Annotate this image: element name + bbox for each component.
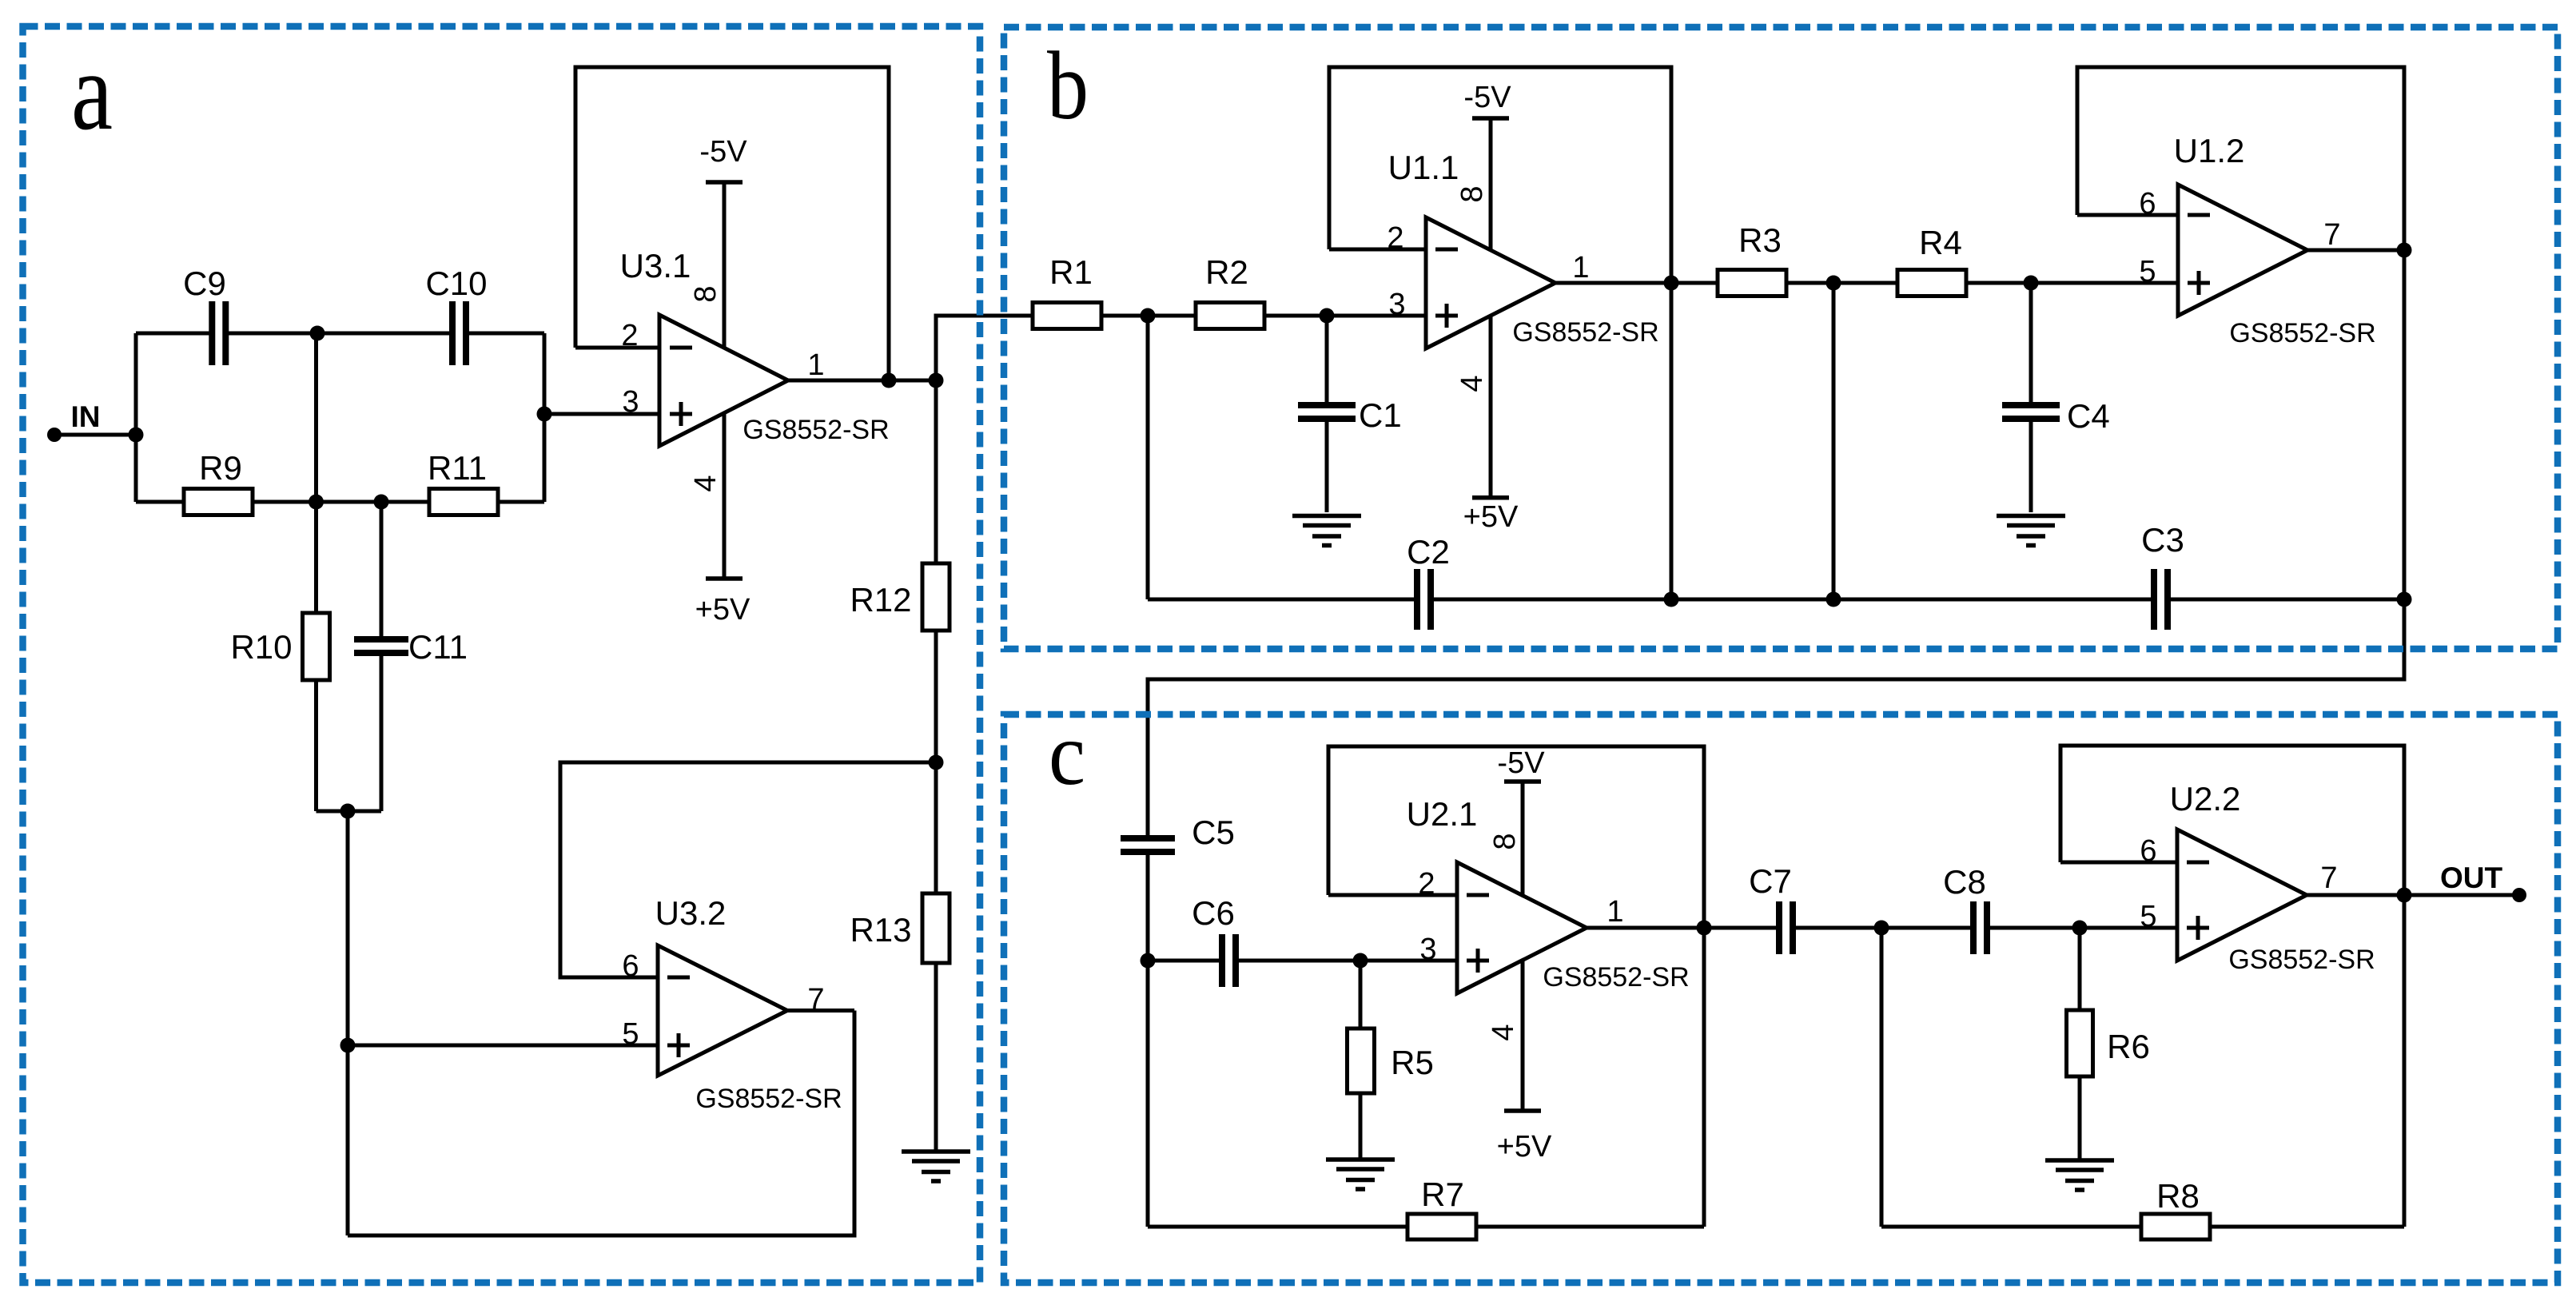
capacitor C6 plates: [1222, 934, 1236, 987]
node IN terminal: [47, 428, 62, 442]
node R4-C4 junction: [2024, 276, 2039, 291]
power -5V bar U1.1: [1472, 116, 1509, 121]
wire b bottom feedback seg3: [2168, 598, 2404, 602]
node IN junction: [129, 428, 144, 443]
wire C7C8 node down: [1880, 928, 1884, 1227]
op-amp U2.1 triangle: [1457, 862, 1587, 993]
svg-text:C11: C11: [408, 628, 468, 666]
wire C5 to C6 node: [1146, 852, 1150, 961]
node U1.1 output junction: [1664, 276, 1679, 291]
svg-text:5: 5: [622, 1017, 639, 1051]
U1.2 plus symbol: [2188, 271, 2210, 295]
svg-text:5: 5: [2140, 900, 2156, 933]
wire R5 node to U2.1 pin3: [1360, 959, 1457, 963]
wire U3.1 output: [788, 379, 936, 383]
node C3-output junction: [2397, 592, 2412, 607]
svg-text:GS8552-SR: GS8552-SR: [1543, 962, 1689, 993]
wire U2.1 output: [1587, 926, 1704, 930]
U2.2 plus symbol: [2187, 916, 2209, 940]
svg-text:C4: C4: [2067, 397, 2110, 435]
svg-text:R5: R5: [1391, 1044, 1434, 1081]
U1.1 minus symbol: [1435, 248, 1458, 252]
node C8-R6 junction: [2072, 921, 2088, 936]
wire R1 to R2: [1101, 314, 1196, 318]
svg-text:6: 6: [622, 949, 639, 983]
resistor R2: [1196, 303, 1264, 329]
capacitor C7 plates: [1779, 901, 1793, 954]
ground symbol R6: [2045, 1160, 2114, 1190]
node pin3 U3.1 junction: [537, 407, 552, 422]
svg-text:C2: C2: [1407, 533, 1450, 571]
svg-text:1: 1: [1572, 251, 1589, 284]
ground symbol C4: [1997, 516, 2065, 546]
svg-text:R6: R6: [2107, 1028, 2150, 1065]
svg-text:1: 1: [807, 348, 824, 382]
node R3R4-bottom junction: [1826, 592, 1841, 607]
svg-text:U3.2: U3.2: [655, 894, 727, 932]
svg-text:U2.2: U2.2: [2170, 780, 2241, 818]
node U2.1 output junction: [1697, 921, 1712, 936]
wire U3.1 feedback loop: [575, 67, 889, 380]
wire U2.2 inverting input: [2060, 861, 2177, 865]
svg-text:IN: IN: [71, 400, 101, 433]
wire U1.1 feedback loop: [1329, 67, 1671, 599]
svg-text:-5V: -5V: [1497, 746, 1545, 780]
wire R12 to node: [934, 630, 938, 762]
wire R3 to R4: [1786, 281, 1897, 285]
wire C4 top: [2029, 283, 2033, 405]
capacitor C11 plates: [354, 639, 408, 653]
border box c: [1004, 714, 2558, 1283]
wire U1.2 inverting input: [2077, 213, 2178, 217]
wire R3R4 node down: [1832, 283, 1836, 599]
resistor R8: [2141, 1214, 2210, 1239]
svg-text:U1.1: U1.1: [1388, 149, 1459, 186]
op-amp U3.2 triangle: [658, 945, 787, 1076]
wire R1R2 node down: [1146, 316, 1150, 599]
svg-text:a: a: [71, 30, 113, 153]
node C6-R5 junction: [1353, 953, 1368, 969]
U1.1 plus symbol: [1435, 304, 1458, 328]
wire U3.1 inverting input: [575, 346, 660, 350]
wire U3.1 power rail: [723, 182, 727, 579]
U1.2 minus symbol: [2188, 213, 2210, 217]
U2.1 minus symbol: [1467, 893, 1489, 897]
wire output down to section c: [1148, 250, 2404, 838]
wire R2 to U1.1 pin3: [1264, 314, 1426, 318]
svg-text:b: b: [1047, 32, 1089, 140]
wire c bottom R8 row: [1881, 1225, 2404, 1229]
wire U2.1 feedback loop: [1328, 746, 1704, 1227]
resistor R12: [922, 563, 950, 631]
svg-text:7: 7: [2320, 861, 2337, 895]
wire output up to section b: [936, 316, 1033, 380]
svg-text:2: 2: [621, 319, 638, 352]
power +5V bar U1.1: [1472, 495, 1509, 500]
wire U1.1 inverting input: [1329, 248, 1426, 252]
wire IN lead: [54, 433, 136, 437]
wire top row seg C9 left: [136, 332, 212, 336]
wire C1 top: [1325, 316, 1329, 405]
svg-text:3: 3: [1388, 288, 1405, 321]
wire R10 bottom: [314, 680, 318, 811]
border box b: [1004, 27, 2558, 649]
resistor R6: [2067, 1010, 2093, 1076]
svg-text:C1: C1: [1359, 396, 1402, 434]
svg-text:R2: R2: [1205, 253, 1248, 291]
svg-text:R9: R9: [199, 449, 242, 487]
svg-text:R7: R7: [1421, 1176, 1464, 1213]
capacitor C2 plates: [1417, 569, 1431, 630]
wire noninverting input U3.2: [348, 1044, 658, 1048]
wire b bottom feedback seg2: [1431, 598, 2154, 602]
svg-text:-5V: -5V: [699, 135, 747, 169]
resistor R9: [184, 489, 253, 515]
wire U3.2 output: [787, 1009, 854, 1013]
resistor R7: [1407, 1214, 1476, 1239]
wire R6 to ground: [2078, 1076, 2082, 1160]
svg-text:7: 7: [2323, 218, 2340, 252]
svg-text:4: 4: [689, 475, 723, 491]
U3.2 plus symbol: [667, 1033, 690, 1057]
capacitor C4 plates: [2002, 405, 2060, 419]
svg-text:+5V: +5V: [695, 593, 751, 627]
svg-text:+5V: +5V: [1497, 1130, 1552, 1164]
wire R13 to ground: [934, 963, 938, 1152]
node C7-C8 junction: [1874, 921, 1889, 936]
wire R4 to U1.2 pin5: [1966, 281, 2178, 285]
wire C6 to R5 node: [1236, 959, 1360, 963]
node U3.1 output R12 junction: [929, 373, 944, 388]
capacitor C10 plates: [452, 301, 466, 365]
wire C8 to U2.2 pin5: [1987, 926, 2177, 930]
wire b bottom feedback seg1: [1148, 598, 1417, 602]
svg-text:6: 6: [2140, 834, 2156, 868]
resistor R11: [429, 489, 498, 515]
power -5V bar U2.1: [1504, 779, 1541, 784]
wire U1.2 output: [2307, 249, 2404, 253]
capacitor C5 plates: [1121, 838, 1175, 852]
wire C7 to C8 node: [1793, 926, 1973, 930]
ground symbol R13: [902, 1152, 970, 1181]
wire c bottom R7 row: [1148, 1225, 1704, 1229]
op-amp U3.1 triangle: [659, 315, 788, 446]
svg-text:c: c: [1049, 705, 1085, 804]
wire R5 to ground: [1359, 1093, 1363, 1160]
node U3.1 output feedback junction: [882, 373, 897, 388]
wire mid vertical to R10: [314, 333, 318, 613]
wire U1.2 feedback loop: [2077, 67, 2404, 250]
wire U1.1 output to R3: [1555, 281, 1718, 285]
node OUT terminal: [2512, 888, 2526, 902]
wire U1.1 power rail: [1489, 118, 1493, 498]
U2.2 minus symbol: [2187, 861, 2209, 865]
resistor R3: [1718, 270, 1786, 296]
svg-text:GS8552-SR: GS8552-SR: [1512, 317, 1658, 348]
node R10-C11 bottom junction: [340, 804, 356, 819]
ground symbol C1: [1292, 516, 1361, 546]
wire R10-C11 join: [317, 810, 382, 814]
svg-text:GS8552-SR: GS8552-SR: [2229, 318, 2375, 348]
U2.1 plus symbol: [1467, 949, 1489, 973]
wire left vertical: [134, 333, 138, 502]
svg-text:U3.1: U3.1: [620, 247, 691, 284]
svg-text:U1.2: U1.2: [2174, 132, 2245, 169]
wire U2.2 output to OUT: [2307, 893, 2519, 897]
U3.1 minus symbol: [670, 346, 692, 350]
svg-text:R4: R4: [1919, 224, 1962, 261]
svg-text:C10: C10: [425, 265, 487, 302]
svg-text:+5V: +5V: [1463, 500, 1519, 534]
node R1-R2 junction: [1141, 308, 1156, 324]
wire U2.1 power rail: [1521, 782, 1525, 1111]
wire node down to U3.2 input: [346, 811, 350, 1235]
svg-text:R13: R13: [850, 911, 911, 949]
svg-text:C3: C3: [2141, 521, 2184, 559]
op-amp U1.2 triangle: [2178, 185, 2307, 316]
svg-text:2: 2: [1387, 221, 1403, 255]
wire output down to R8: [2403, 895, 2407, 1227]
svg-text:C8: C8: [1943, 863, 1986, 901]
svg-text:8: 8: [1488, 833, 1522, 849]
svg-text:R12: R12: [850, 581, 911, 619]
svg-text:C5: C5: [1192, 814, 1235, 851]
U3.1 plus symbol: [670, 402, 692, 426]
capacitor C3 plates: [2154, 569, 2168, 630]
svg-text:R8: R8: [2156, 1177, 2200, 1215]
power -5V bar U3.1: [706, 180, 743, 185]
power +5V bar U3.1: [706, 576, 743, 581]
wire top row seg C9-C10: [225, 332, 452, 336]
wire U3.2 output loop to pin5 node: [348, 1011, 854, 1236]
svg-text:R3: R3: [1738, 221, 1782, 259]
wire noninverting input U3.1: [544, 412, 660, 416]
U3.2 minus symbol: [667, 976, 690, 980]
svg-text:3: 3: [622, 385, 639, 419]
svg-text:R10: R10: [230, 628, 292, 666]
node C9-C10 junction: [310, 326, 325, 341]
capacitor C9 plates: [212, 301, 225, 365]
svg-text:4: 4: [1487, 1024, 1520, 1040]
resistor R4: [1897, 270, 1966, 296]
svg-text:GS8552-SR: GS8552-SR: [695, 1084, 842, 1114]
wire output to C7: [1704, 926, 1779, 930]
border box a: [23, 26, 981, 1283]
power +5V bar U2.1: [1504, 1108, 1541, 1113]
svg-text:OUT: OUT: [2440, 861, 2503, 894]
svg-text:-5V: -5V: [1463, 81, 1511, 114]
wire output down to R12: [934, 380, 938, 563]
svg-text:5: 5: [2139, 255, 2156, 288]
svg-text:GS8552-SR: GS8552-SR: [743, 415, 889, 445]
node R2-C1 junction: [1320, 308, 1335, 324]
resistor R1: [1033, 303, 1101, 329]
op-amp U1.1 triangle: [1426, 217, 1555, 348]
svg-text:1: 1: [1607, 895, 1623, 929]
node C5-C6 junction: [1141, 953, 1156, 969]
wire U2.2 feedback loop: [2060, 746, 2404, 895]
wire C6 node down: [1146, 961, 1150, 1227]
wire C4 to ground: [2029, 419, 2033, 512]
svg-text:C6: C6: [1192, 894, 1235, 932]
svg-text:R1: R1: [1049, 253, 1093, 291]
node U1.2 output junction: [2397, 243, 2412, 258]
svg-text:GS8552-SR: GS8552-SR: [2228, 945, 2375, 975]
wire top row seg C10 right: [466, 332, 544, 336]
svg-text:8: 8: [1455, 185, 1489, 202]
svg-text:R11: R11: [428, 449, 487, 487]
wire C6 left: [1148, 959, 1222, 963]
node R9-R10 junction: [309, 495, 324, 510]
resistor R10: [303, 613, 330, 680]
svg-text:6: 6: [2139, 187, 2156, 221]
svg-text:C7: C7: [1749, 862, 1792, 900]
node R12-R13 divider junction: [929, 755, 944, 770]
svg-text:4: 4: [1455, 375, 1489, 392]
svg-text:C9: C9: [183, 265, 226, 302]
wire C11 vertical top: [380, 502, 384, 639]
capacitor C1 plates: [1298, 405, 1356, 419]
wire R6 top: [2078, 928, 2082, 1010]
wire C11 vertical bottom: [380, 653, 384, 811]
svg-text:8: 8: [689, 285, 723, 302]
node U2.2 output junction: [2397, 888, 2412, 903]
wire divider node to R13: [934, 762, 938, 893]
capacitor C8 plates: [1973, 901, 1987, 954]
svg-text:U2.1: U2.1: [1407, 795, 1478, 833]
wire U3.2 feedback to divider: [560, 762, 936, 977]
resistor R13: [922, 893, 950, 963]
wire bottom row R9 R11: [136, 500, 544, 504]
node C11 junction: [374, 495, 389, 510]
node R3-R4 junction: [1826, 276, 1841, 291]
wire right vertical: [543, 333, 547, 502]
resistor R5: [1348, 1028, 1375, 1093]
wire C1 to ground: [1325, 419, 1329, 512]
op-amp U2.2 triangle: [2177, 830, 2307, 961]
ground symbol R5: [1326, 1160, 1395, 1189]
svg-text:3: 3: [1419, 933, 1436, 966]
svg-text:2: 2: [1418, 867, 1435, 901]
wire R5 top: [1359, 961, 1363, 1028]
node U3.2 pin5 junction: [340, 1038, 356, 1053]
wire U2.1 inverting input: [1328, 893, 1457, 897]
node C2 feedback junction: [1664, 592, 1679, 607]
svg-text:7: 7: [807, 983, 824, 1017]
